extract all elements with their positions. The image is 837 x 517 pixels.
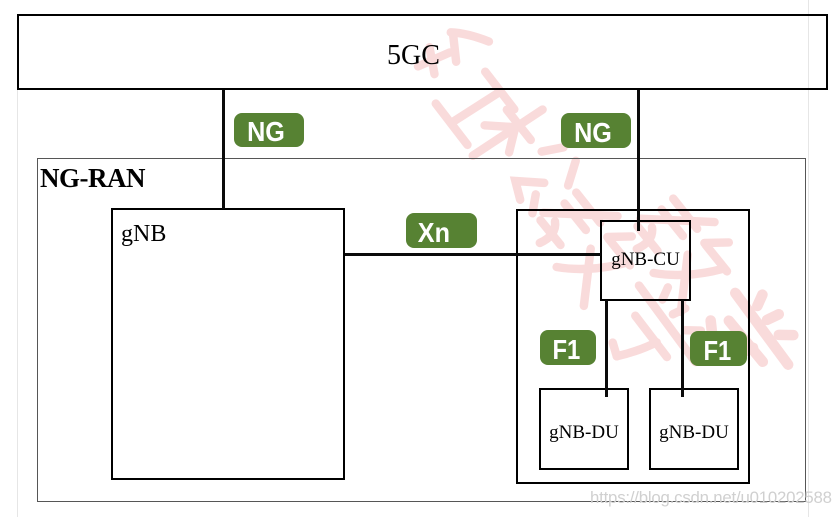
gNB label [121, 222, 166, 246]
5GC box [17, 14, 828, 90]
faint page rule left [17, 14, 18, 517]
Xn chip [406, 213, 477, 248]
NG wire left [222, 90, 225, 209]
wm char 5 [624, 185, 746, 312]
gNB box [111, 208, 345, 480]
gNB-DU label right [649, 423, 739, 442]
F1 chip right [690, 331, 747, 366]
faint page rule right [808, 0, 809, 517]
Xn wire [345, 253, 601, 256]
NG chip left [234, 113, 304, 147]
5GC label [387, 42, 440, 70]
NG-RAN box [37, 158, 806, 502]
csdn url watermark [590, 489, 832, 507]
F1 wire left [605, 300, 608, 397]
wm char 6 [690, 280, 805, 398]
NG chip right [561, 113, 631, 148]
wm char 1 [407, 17, 530, 146]
gNB-DU box left [539, 388, 629, 470]
gNB-CU box [600, 220, 691, 301]
NG wire right [637, 90, 640, 231]
gNB-CU label [600, 250, 691, 269]
gNB-DU label left [539, 423, 629, 442]
wm char 4 [591, 271, 714, 397]
gNB (CU/DU) outer box [516, 209, 750, 484]
NG-RAN label [40, 165, 145, 192]
wm char 2 [462, 93, 588, 222]
gNB-DU box right [649, 388, 739, 470]
wm char 3 [527, 179, 649, 306]
F1 chip left [540, 330, 596, 365]
F1 wire right [681, 300, 684, 397]
